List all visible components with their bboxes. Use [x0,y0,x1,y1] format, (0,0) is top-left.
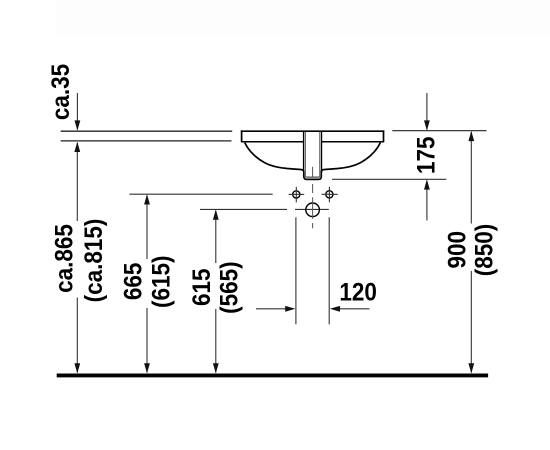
svg-text:(565): (565) [215,261,243,313]
svg-text:(ca.815): (ca.815) [80,219,108,303]
dim 175 line top [426,93,428,130]
drain inner wall left [304,132,306,177]
floor line [57,373,488,377]
vertical centerline [312,167,314,177]
svg-text:ca.865: ca.865 [51,224,79,293]
dim 665 line [146,196,148,260]
svg-text:ca.35: ca.35 [47,64,75,120]
dim 120 leader right [338,308,370,310]
small hole left crosshair [289,193,305,195]
svg-text:665: 665 [120,263,148,301]
dim 120 leader left [256,308,288,310]
svg-text:(850): (850) [471,224,499,276]
drain outer wall right [321,132,323,173]
small hole left circle [293,191,300,198]
drain inner wall right [319,132,321,177]
small hole right crosshair [322,193,338,195]
counter bottom line left [61,140,232,142]
faucet holes reference line (665) [129,193,272,195]
dim ca.35 line [76,93,78,130]
svg-text:900: 900 [444,231,472,269]
hole extension line right [328,217,330,324]
hole extension line left [295,217,297,324]
basin rim top [241,130,384,132]
small hole right circle [326,191,333,198]
basin rim right edge [383,130,385,142]
basin rim bottom right segment [322,141,384,143]
svg-text:175: 175 [413,137,441,175]
svg-text:120: 120 [339,279,377,307]
basin rim bottom left segment [242,141,304,143]
dim 175 line bottom [426,181,428,221]
svg-text:(615): (615) [147,256,175,308]
basin rim left edge [241,130,243,142]
drain reference line (615) [200,208,287,210]
drain inner bottom [305,176,319,178]
counter reference line right [392,130,486,132]
dim 615 line [215,211,217,263]
bowl bottom reference line to 175 [332,178,446,180]
svg-text:615: 615 [188,269,216,307]
drain outer wall left [303,132,305,173]
drain hole circle [306,203,320,217]
dim ca.865 line [76,143,78,221]
dim 900 line [470,132,472,224]
counter top line left [61,130,233,132]
basin bowl outline [245,143,381,180]
